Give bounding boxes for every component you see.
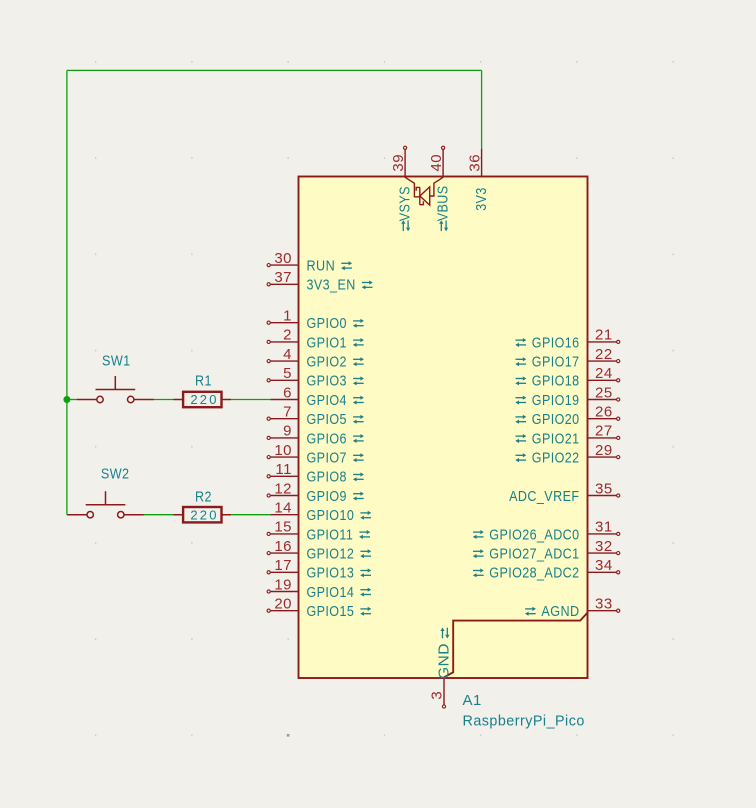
pin 24 GPIO18 (right) (515, 365, 620, 390)
svg-text:39: 39 (390, 154, 407, 172)
svg-text:30: 30 (274, 250, 292, 267)
pin 4 GPIO2 (left) (267, 346, 364, 371)
IC body: RaspberryPi_Pico module A1 (299, 177, 588, 679)
pin 27 GPIO21 (right) (515, 423, 620, 448)
svg-text:17: 17 (274, 557, 292, 574)
svg-text:GPIO10: GPIO10 (307, 507, 355, 524)
pin 5 GPIO3 (left) (267, 365, 364, 390)
svg-text:29: 29 (595, 442, 613, 459)
pin 37 3V3_EN (left) (267, 269, 373, 294)
svg-text:20: 20 (274, 596, 292, 613)
svg-text:36: 36 (467, 154, 484, 172)
svg-text:9: 9 (283, 423, 292, 440)
svg-text:6: 6 (283, 384, 292, 401)
svg-text:GPIO17: GPIO17 (532, 354, 580, 371)
svg-text:19: 19 (274, 576, 292, 593)
wire: R2 pin 2 to GPIO10 pin 14 (231, 514, 270, 516)
svg-text:GPIO5: GPIO5 (307, 411, 347, 428)
svg-text:GPIO12: GPIO12 (307, 546, 355, 563)
svg-text:SW1: SW1 (102, 352, 131, 369)
wire: 3V3 net, vertical drop to pin 36 of U A1 (481, 70, 483, 148)
svg-text:33: 33 (595, 596, 613, 613)
pin 19 GPIO14 (left) (267, 576, 371, 601)
internal GND/AGND bus polyline inside chip (443, 613, 588, 678)
pin 33 AGND (right) (525, 596, 620, 621)
pin 9 GPIO6 (left) (267, 423, 364, 448)
svg-text:GPIO13: GPIO13 (307, 565, 355, 582)
svg-text:GPIO21: GPIO21 (532, 430, 580, 447)
svg-text:34: 34 (595, 557, 613, 574)
pin 10 GPIO7 (left) (267, 442, 364, 467)
pin 16 GPIO12 (left) (267, 538, 371, 563)
svg-text:R1: R1 (195, 373, 212, 390)
svg-text:GPIO8: GPIO8 (307, 469, 347, 486)
pin 21 GPIO16 (right) (515, 327, 620, 352)
pin 29 GPIO22 (right) (515, 442, 620, 467)
svg-text:GPIO18: GPIO18 (532, 373, 580, 390)
svg-text:10: 10 (274, 442, 292, 459)
switch SW2 (push button) (67, 491, 144, 518)
svg-text:3V3_EN: 3V3_EN (307, 277, 356, 294)
pin 1 GPIO0 (left) (267, 308, 364, 333)
svg-text:12: 12 (274, 480, 292, 497)
pin 12 GPIO9 (left) (267, 480, 364, 505)
svg-text:GPIO1: GPIO1 (307, 334, 347, 351)
svg-text:GPIO19: GPIO19 (532, 392, 580, 409)
svg-text:26: 26 (595, 404, 613, 421)
svg-text:GPIO6: GPIO6 (307, 430, 347, 447)
wire: SW2 pin 2 to R2 pin 1 (144, 514, 174, 516)
pin 22 GPIO17 (right) (515, 346, 620, 371)
svg-text:35: 35 (595, 480, 613, 497)
svg-text:220: 220 (190, 507, 218, 522)
wire: left rail to SW1 pin 1 (67, 399, 77, 401)
svg-text:40: 40 (428, 154, 445, 172)
switch SW1 (push button) (77, 376, 154, 403)
svg-text:7: 7 (283, 404, 292, 421)
pin 25 GPIO19 (right) (515, 384, 620, 409)
svg-text:RUN: RUN (307, 258, 336, 275)
svg-text:AGND: AGND (541, 603, 579, 620)
svg-text:VBUS: VBUS (434, 185, 451, 221)
svg-text:GPIO0: GPIO0 (307, 315, 347, 332)
pin 20 GPIO15 (left) (267, 596, 371, 621)
pin 7 GPIO5 (left) (267, 404, 364, 429)
pin 15 GPIO11 (left) (267, 519, 370, 544)
pin 30 RUN (left) (267, 250, 352, 275)
pin 17 GPIO13 (left) (267, 557, 371, 582)
svg-text:GPIO4: GPIO4 (307, 392, 347, 409)
svg-text:GPIO20: GPIO20 (532, 411, 580, 428)
svg-text:SW2: SW2 (101, 466, 130, 483)
svg-text:4: 4 (283, 346, 292, 363)
pin 40 VBUS (top) (428, 146, 451, 231)
svg-text:R2: R2 (195, 489, 212, 506)
svg-text:GPIO3: GPIO3 (307, 373, 347, 390)
svg-text:220: 220 (190, 392, 218, 407)
wire: left vertical rail from top wire down to SW2 (66, 70, 68, 514)
svg-text:3V3: 3V3 (473, 187, 490, 211)
pin 26 GPIO20 (right) (515, 404, 620, 429)
resistor R2 220 ohm (174, 507, 232, 522)
svg-text:31: 31 (595, 519, 613, 536)
svg-text:RaspberryPi_Pico: RaspberryPi_Pico (463, 713, 585, 730)
pin 31 GPIO26_ADC0 (right) (473, 519, 620, 544)
svg-text:GPIO14: GPIO14 (307, 584, 355, 601)
svg-text:GPIO26_ADC0: GPIO26_ADC0 (489, 526, 579, 543)
svg-text:5: 5 (283, 365, 292, 382)
svg-text:GPIO2: GPIO2 (307, 354, 347, 371)
pin 6 GPIO4 (left) (270, 384, 364, 409)
pin 14 GPIO10 (left) (270, 500, 371, 525)
svg-text:GPIO9: GPIO9 (307, 488, 347, 505)
pin 35 ADC_VREF (right) (509, 480, 620, 505)
svg-text:1: 1 (283, 308, 292, 325)
pin 39 VSYS (top) (390, 146, 413, 231)
svg-text:ADC_VREF: ADC_VREF (509, 488, 579, 505)
svg-text:GPIO11: GPIO11 (307, 526, 354, 543)
svg-text:3: 3 (429, 691, 446, 700)
svg-text:GPIO7: GPIO7 (307, 450, 347, 467)
svg-text:GND: GND (436, 643, 453, 679)
svg-text:GPIO27_ADC1: GPIO27_ADC1 (489, 546, 579, 563)
resistor R1 220 ohm (174, 392, 232, 407)
svg-text:VSYS: VSYS (396, 186, 413, 221)
pin 11 GPIO8 (left) (267, 461, 364, 486)
svg-text:25: 25 (595, 384, 613, 401)
svg-text:24: 24 (595, 365, 613, 382)
svg-text:21: 21 (595, 327, 613, 344)
svg-text:GPIO28_ADC2: GPIO28_ADC2 (489, 565, 579, 582)
svg-text:37: 37 (274, 269, 292, 286)
pin 2 GPIO1 (left) (267, 327, 364, 352)
pin 34 GPIO28_ADC2 (right) (473, 557, 620, 582)
wire: 3V3 net, top horizontal from left rail to pin 36 (67, 69, 482, 71)
svg-text:GPIO16: GPIO16 (532, 334, 580, 351)
svg-text:27: 27 (595, 423, 613, 440)
internal schottky diode between VSYS and VBUS (405, 177, 443, 205)
junction: green dot at SW1 tap on left rail (63, 396, 70, 403)
svg-text:16: 16 (274, 538, 292, 555)
svg-text:2: 2 (283, 327, 292, 344)
wire: R1 pin 2 to GPIO4 pin 6 (231, 399, 270, 401)
svg-text:11: 11 (275, 461, 292, 478)
pin 3 GND (bottom) (429, 628, 453, 709)
svg-text:GPIO15: GPIO15 (307, 603, 355, 620)
wire: SW1 pin 2 to R1 pin 1 (154, 399, 174, 401)
pin 36 3V3 (top) (467, 149, 490, 211)
svg-text:14: 14 (274, 500, 292, 517)
pin 32 GPIO27_ADC1 (right) (473, 538, 620, 563)
svg-text:32: 32 (595, 538, 613, 555)
svg-text:22: 22 (595, 346, 613, 363)
svg-text:GPIO22: GPIO22 (532, 450, 580, 467)
svg-text:15: 15 (274, 519, 292, 536)
svg-text:A1: A1 (463, 692, 482, 709)
